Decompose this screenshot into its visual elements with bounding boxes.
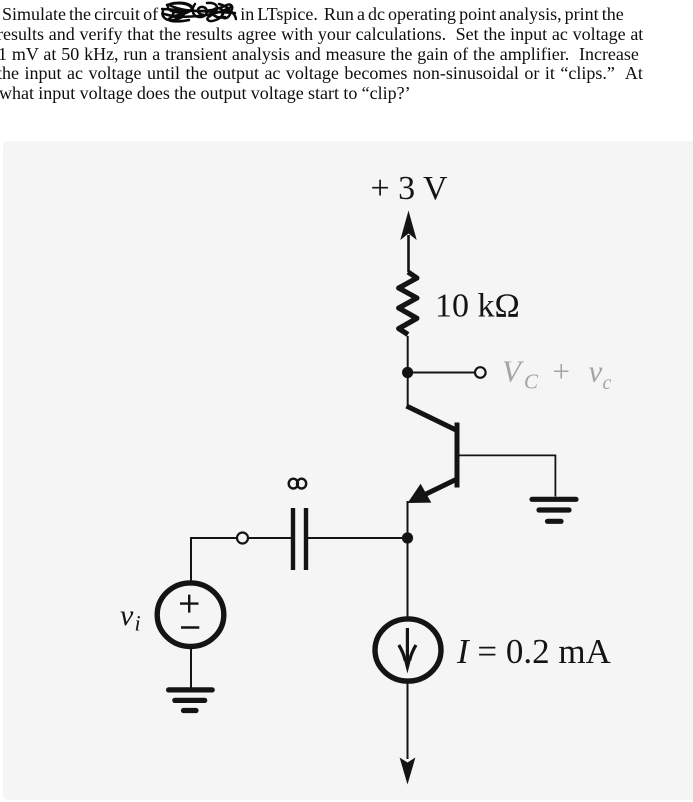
svg-text:v: v [589,354,603,389]
current source I1 circle [375,619,441,681]
output terminal open circle [475,367,486,378]
label Vc + vc [502,354,612,395]
svg-text:i: i [135,611,141,636]
svg-text:v: v [120,599,134,632]
source minus sign [181,626,199,628]
svg-text:I = 0.2 mA: I = 0.2 mA [456,632,612,671]
svg-text:10 kΩ: 10 kΩ [435,288,520,325]
label vi [120,599,141,636]
input terminal open circle [237,533,248,544]
source plus sign [180,595,199,613]
ground (base side) [532,499,576,521]
label 10 kΩ [435,288,520,325]
wire resistor to collector node [407,336,409,407]
current source arrow [399,628,416,674]
wire source to ground [190,649,192,691]
svg-text:c: c [603,372,612,394]
ground (source side) [169,690,213,711]
scribble (crossed-out word) [162,3,236,22]
wire current source to bottom arrow [407,684,409,760]
wire node to output terminal [408,372,474,374]
svg-text:+ 3 V: + 3 V [370,170,448,207]
node collector junction dot [402,367,413,378]
bottom arrow down [400,758,416,785]
transistor Q1 collector stroke [407,406,458,431]
wire capacitor to node [308,537,408,539]
label +3 V [370,170,448,207]
node input junction dot [402,532,413,543]
resistor R1 10 kΩ [399,272,417,335]
svg-text:C: C [524,370,539,394]
source V1 circle [157,583,224,647]
wire open circle to capacitor [249,537,291,539]
svg-text:V: V [502,354,524,389]
base wire to ground [459,455,555,496]
label infinity [289,479,307,489]
label I = 0.2 mA [456,632,612,671]
wire source to open circle [191,538,236,581]
supply arrow up [400,211,416,273]
svg-text:+: + [553,354,570,389]
capacitor C1 plates [293,508,306,570]
transistor Q1 emitter stroke with arrow [408,480,456,504]
wire node to current source [407,538,409,617]
wire emitter down to input node [407,501,409,538]
transistor Q1 base bar [455,423,460,488]
paragraph text [0,1,693,104]
